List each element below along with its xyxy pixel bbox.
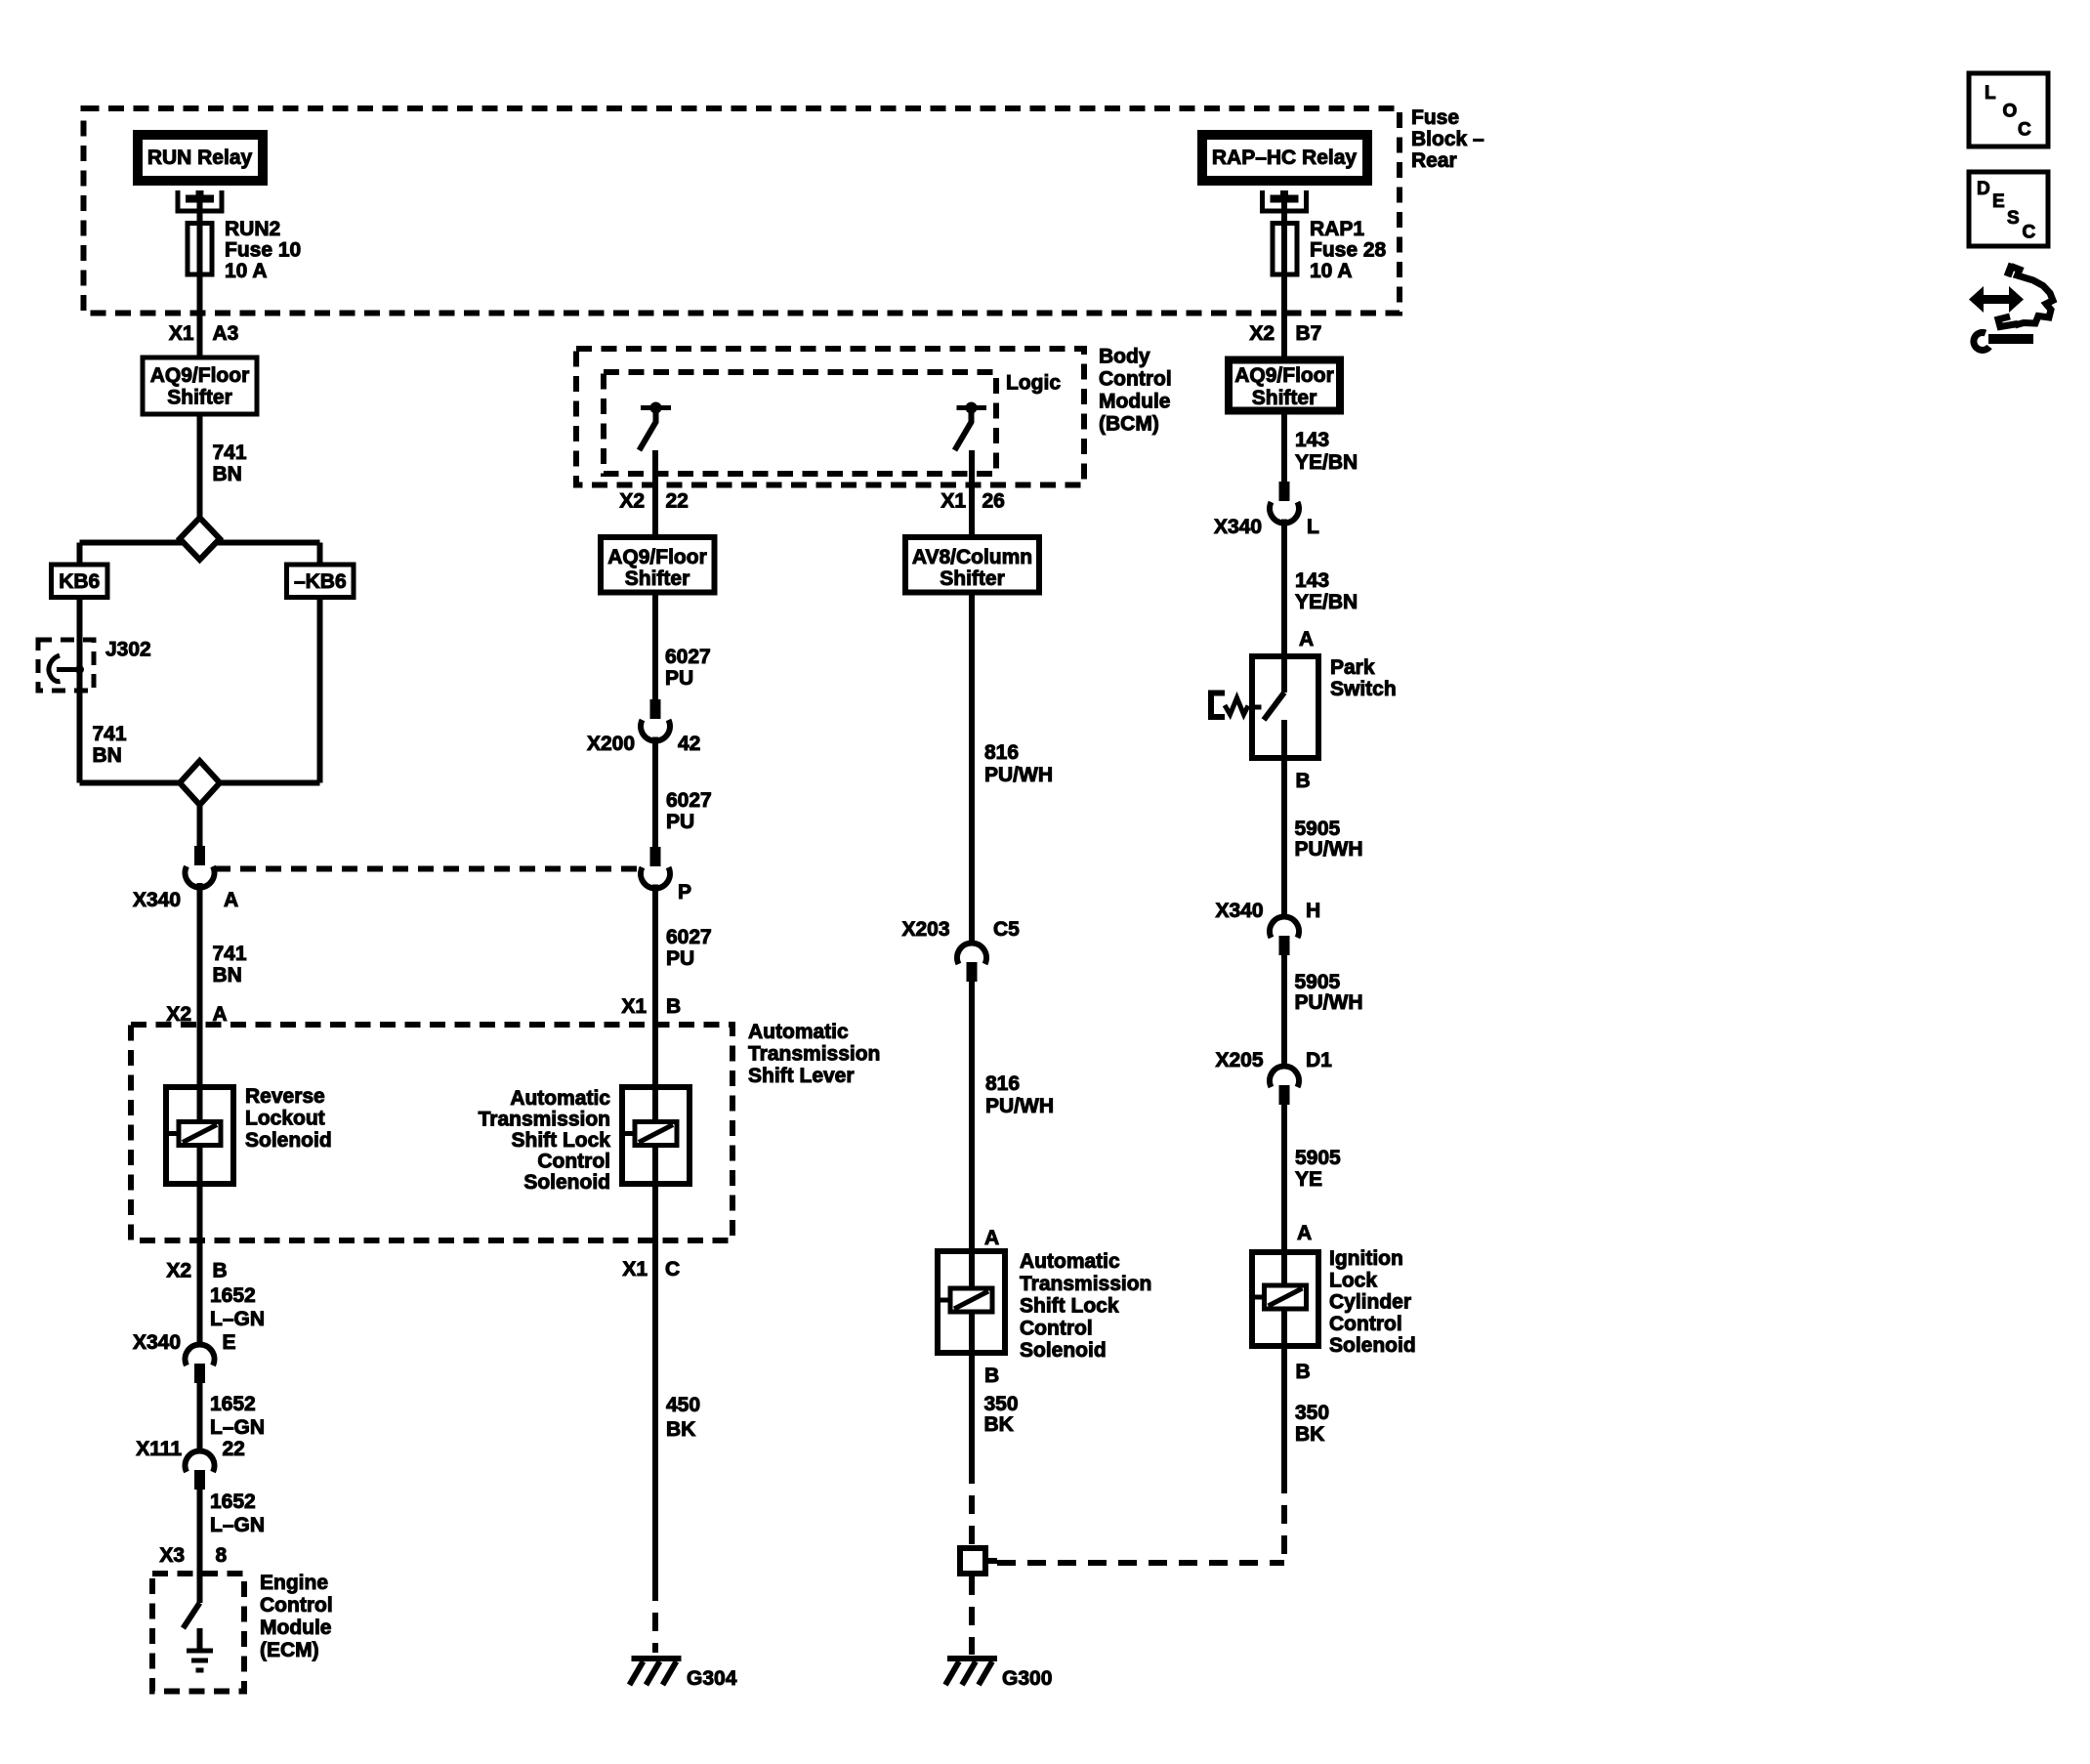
ECM internal switch blade <box>184 1603 200 1628</box>
svg-text:6027: 6027 <box>666 789 712 812</box>
wire park switch to X340-H <box>1281 761 1287 915</box>
svg-text:L: L <box>1985 83 1996 104</box>
svg-text:PU/WH: PU/WH <box>1295 838 1363 861</box>
svg-text:X205: X205 <box>1215 1049 1263 1071</box>
svg-text:816: 816 <box>984 741 1019 764</box>
wire solenoid to splice <box>969 1356 975 1465</box>
wire X205 to ignition solenoid <box>1281 1104 1287 1250</box>
wire right branch upper <box>317 543 323 563</box>
svg-text:Ignition: Ignition <box>1329 1247 1403 1270</box>
wire AQ9 to splice diamond <box>197 415 203 520</box>
svg-text:B7: B7 <box>1296 322 1322 345</box>
in-line connector X340 cavity L <box>1279 482 1290 501</box>
in-line connector X205 cavity D1 <box>1270 1066 1299 1087</box>
svg-text:Lock: Lock <box>1329 1269 1377 1291</box>
svg-text:5905: 5905 <box>1295 1147 1341 1169</box>
icon hotlink double arrow <box>1969 286 2024 313</box>
svg-text:RUN Relay: RUN Relay <box>147 147 253 169</box>
svg-text:X340: X340 <box>133 889 181 911</box>
svg-text:X203: X203 <box>901 918 949 941</box>
svg-text:X1: X1 <box>622 1258 648 1281</box>
svg-text:O: O <box>2003 102 2018 122</box>
svg-text:BN: BN <box>213 463 242 485</box>
svg-text:D: D <box>1977 179 1990 199</box>
svg-text:6027: 6027 <box>666 926 712 948</box>
wire RAP relay to AQ9 connector <box>1281 194 1287 357</box>
svg-text:A: A <box>224 889 238 911</box>
park switch actuator bracket <box>1211 693 1225 718</box>
wire X200 to P <box>652 737 658 848</box>
svg-text:Lockout: Lockout <box>245 1108 325 1130</box>
wire branch horizontal (top) <box>80 540 320 546</box>
fuse RAP1 Fuse 28 <box>1273 224 1297 275</box>
svg-text:RAP1: RAP1 <box>1310 218 1364 240</box>
wire AQ9 to X200 <box>652 596 658 700</box>
wire BCM X1-26 to AV8 box <box>969 450 975 534</box>
svg-text:450: 450 <box>666 1394 700 1416</box>
svg-text:Solenoid: Solenoid <box>1020 1339 1107 1362</box>
svg-text:1652: 1652 <box>210 1491 256 1513</box>
svg-text:B: B <box>213 1260 228 1282</box>
svg-text:22: 22 <box>223 1438 245 1460</box>
svg-text:PU: PU <box>665 667 693 690</box>
svg-text:H: H <box>1306 900 1320 922</box>
svg-text:Transmission: Transmission <box>748 1043 880 1066</box>
wire through A/T shift lock solenoid (col3) <box>969 1248 975 1356</box>
svg-text:741: 741 <box>93 723 127 745</box>
splice J302 dashed box <box>38 640 94 691</box>
BCM driver switch (right) <box>957 405 987 410</box>
svg-text:1652: 1652 <box>210 1393 256 1415</box>
solenoid L2 A/T Shift Lock Control Solenoid <box>622 1087 690 1184</box>
splice diamond (top) <box>180 518 220 560</box>
svg-text:B: B <box>1296 1361 1311 1383</box>
option box KB6 <box>52 565 108 598</box>
dashed wire to ground splice <box>969 1465 975 1545</box>
svg-text:Control: Control <box>260 1594 333 1617</box>
svg-text:E: E <box>223 1331 236 1354</box>
svg-text:Module: Module <box>1099 391 1171 413</box>
park switch upper contact wire <box>1281 653 1287 693</box>
wire X111 to ECM <box>197 1489 203 1603</box>
in-line connector cavity P <box>650 847 661 866</box>
connector box AQ9/Floor Shifter (right) <box>1229 360 1340 411</box>
svg-text:P: P <box>678 881 691 903</box>
svg-text:Fuse 10: Fuse 10 <box>225 239 301 262</box>
dashed wire ignition solenoid to splice <box>1281 1475 1287 1563</box>
dashed wire splice to G300 <box>969 1576 975 1655</box>
svg-text:350: 350 <box>984 1393 1019 1415</box>
wire diamond to connector X340-A <box>197 805 203 846</box>
svg-text:BK: BK <box>666 1418 695 1441</box>
park switch blade <box>1264 693 1284 720</box>
svg-text:X1: X1 <box>621 995 647 1018</box>
in-line connector X340 cavity H <box>1270 916 1299 938</box>
svg-text:YE/BN: YE/BN <box>1295 591 1358 613</box>
wire solenoid to G304 <box>652 1187 658 1582</box>
svg-text:L: L <box>1307 516 1319 538</box>
svg-text:AV8/Column: AV8/Column <box>912 546 1032 568</box>
svg-text:X111: X111 <box>136 1438 182 1460</box>
svg-text:22: 22 <box>666 490 689 513</box>
svg-text:Control: Control <box>1329 1313 1402 1335</box>
splice diamond (bottom) <box>180 761 220 805</box>
svg-text:C5: C5 <box>993 918 1020 941</box>
park switch linkage dash <box>1254 705 1262 710</box>
svg-text:X200: X200 <box>587 733 635 755</box>
svg-text:741: 741 <box>213 943 247 965</box>
engine control module dashed box <box>152 1574 244 1692</box>
svg-text:Block –: Block – <box>1411 128 1484 150</box>
svg-text:Engine: Engine <box>260 1572 328 1594</box>
svg-text:PU: PU <box>666 947 694 970</box>
svg-text:Switch: Switch <box>1330 678 1397 700</box>
svg-text:RAP–HC Relay: RAP–HC Relay <box>1212 147 1358 169</box>
wire X340A to reverse lockout solenoid <box>197 883 203 1084</box>
svg-text:143: 143 <box>1295 429 1329 451</box>
svg-text:BK: BK <box>1295 1423 1324 1446</box>
svg-text:Park: Park <box>1330 656 1375 679</box>
park switch box <box>1252 656 1318 758</box>
svg-text:C: C <box>2018 120 2031 141</box>
svg-text:26: 26 <box>982 490 1005 513</box>
wire X340L to park switch <box>1281 520 1287 654</box>
svg-text:741: 741 <box>213 441 247 464</box>
svg-text:42: 42 <box>678 733 700 755</box>
svg-text:Shifter: Shifter <box>167 387 232 409</box>
wire X340E to X111 <box>197 1383 203 1450</box>
svg-text:5905: 5905 <box>1295 818 1341 840</box>
svg-text:D1: D1 <box>1306 1049 1332 1071</box>
in-line connector X340 cavity A <box>194 846 205 865</box>
solenoid L3 A/T Shift Lock Control Solenoid <box>938 1251 1005 1353</box>
relay RAP-HC Relay box <box>1202 135 1367 181</box>
svg-text:Solenoid: Solenoid <box>523 1171 610 1194</box>
svg-text:C: C <box>2023 223 2036 243</box>
svg-text:Rear: Rear <box>1411 149 1457 172</box>
svg-text:E: E <box>1992 191 2005 212</box>
fuse block - rear dashed outline <box>84 108 1400 314</box>
svg-text:Automatic: Automatic <box>510 1087 610 1110</box>
svg-text:(ECM): (ECM) <box>260 1639 319 1661</box>
svg-text:L–GN: L–GN <box>210 1416 265 1439</box>
wire BCM X2-22 to AQ9 box <box>652 450 658 534</box>
wire AQ9 to X340-L <box>1281 415 1287 483</box>
body control module dashed box <box>576 349 1084 485</box>
RUN relay output terminal <box>178 190 222 211</box>
wire left branch lower <box>77 600 83 783</box>
dashed wire splice to ignition solenoid <box>997 1560 1284 1566</box>
svg-text:Shift Lock: Shift Lock <box>511 1129 610 1152</box>
svg-text:G304: G304 <box>687 1667 737 1690</box>
svg-text:BK: BK <box>984 1413 1014 1436</box>
svg-text:KB6: KB6 <box>59 570 100 593</box>
svg-text:10 A: 10 A <box>225 260 268 282</box>
ground G300 <box>947 1656 997 1661</box>
svg-text:L–GN: L–GN <box>210 1514 265 1536</box>
icon hotlink pointer outline <box>2008 264 2013 276</box>
svg-text:L–GN: L–GN <box>210 1308 265 1330</box>
wire X340H to X205 <box>1281 954 1287 1066</box>
svg-text:Shifter: Shifter <box>625 567 690 590</box>
svg-text:10 A: 10 A <box>1310 260 1353 282</box>
svg-text:X1: X1 <box>940 490 966 513</box>
ECM ground stem <box>197 1628 203 1649</box>
svg-text:X3: X3 <box>159 1544 185 1567</box>
svg-text:1652: 1652 <box>210 1284 256 1307</box>
RAP relay output terminal <box>1263 190 1307 211</box>
ECM earth ground symbol <box>187 1649 213 1654</box>
svg-text:B: B <box>666 995 681 1018</box>
svg-text:Control: Control <box>1099 368 1172 391</box>
connector box AV8/Column Shifter <box>905 537 1039 593</box>
svg-text:Body: Body <box>1099 346 1150 368</box>
wire through ignition lock solenoid <box>1281 1249 1287 1349</box>
option box -KB6 <box>287 565 355 598</box>
solenoid L4 Ignition Lock Cylinder Control Solenoid <box>1252 1252 1318 1346</box>
icon hotlink wrench <box>1974 332 1989 350</box>
solenoid L1 Reverse Lockout Solenoid <box>166 1087 233 1184</box>
svg-text:S: S <box>2007 208 2020 229</box>
splice J302 symbol <box>75 665 84 674</box>
svg-text:PU/WH: PU/WH <box>985 1095 1054 1117</box>
svg-text:Module: Module <box>260 1617 332 1639</box>
wire left branch upper <box>77 543 83 563</box>
svg-text:5905: 5905 <box>1295 971 1341 993</box>
svg-text:PU: PU <box>666 811 694 833</box>
svg-text:Shifter: Shifter <box>940 567 1005 590</box>
svg-text:Transmission: Transmission <box>1020 1273 1151 1295</box>
svg-text:A: A <box>1299 628 1314 651</box>
svg-text:Shift Lock: Shift Lock <box>1020 1295 1119 1318</box>
wire through reverse lockout solenoid <box>197 1084 203 1187</box>
svg-text:B: B <box>1296 770 1311 792</box>
wire AV8 to X203 <box>969 596 975 943</box>
svg-text:X340: X340 <box>1215 900 1263 922</box>
ground splice square <box>960 1548 985 1574</box>
wire through shift lock solenoid <box>652 1084 658 1187</box>
connector box AQ9/Floor Shifter (middle) <box>601 537 715 593</box>
svg-text:Control: Control <box>537 1151 610 1173</box>
svg-text:YE: YE <box>1295 1168 1322 1191</box>
in-line connector X200 cavity 42 <box>650 699 661 719</box>
wire P to shift lock solenoid <box>652 885 658 1085</box>
svg-text:X340: X340 <box>1214 516 1262 538</box>
svg-text:BN: BN <box>213 964 242 987</box>
svg-text:AQ9/Floor: AQ9/Floor <box>150 364 250 387</box>
park switch actuator zigzag <box>1225 698 1248 715</box>
dashed connector link X340A to P <box>215 866 640 872</box>
svg-text:G300: G300 <box>1002 1667 1052 1690</box>
icon LOC box <box>1969 73 2048 147</box>
svg-text:Reverse: Reverse <box>245 1085 325 1108</box>
logic dashed box <box>604 372 996 474</box>
svg-text:AQ9/Floor: AQ9/Floor <box>1234 364 1334 387</box>
svg-text:Fuse 28: Fuse 28 <box>1310 239 1387 262</box>
svg-text:X2: X2 <box>619 490 645 513</box>
wire ignition solenoid down <box>1281 1349 1287 1475</box>
svg-text:(BCM): (BCM) <box>1099 413 1159 436</box>
svg-text:Automatic: Automatic <box>748 1021 849 1043</box>
svg-text:RUN2: RUN2 <box>225 218 280 240</box>
svg-text:6027: 6027 <box>665 646 711 668</box>
svg-text:–KB6: –KB6 <box>294 570 347 593</box>
in-line connector X340 cavity E <box>185 1344 214 1365</box>
svg-text:A3: A3 <box>213 322 239 345</box>
svg-text:J302: J302 <box>105 639 151 661</box>
svg-text:Transmission: Transmission <box>479 1109 610 1131</box>
svg-text:Shift Lever: Shift Lever <box>748 1065 855 1087</box>
in-line connector X203 cavity C5 <box>957 943 986 964</box>
svg-text:8: 8 <box>216 1544 228 1567</box>
wire solenoid to X340-E <box>197 1187 203 1344</box>
wire RUN relay to AQ9 connector <box>197 194 203 357</box>
svg-text:A: A <box>1297 1222 1312 1244</box>
svg-text:PU/WH: PU/WH <box>1295 991 1363 1014</box>
ground G304 <box>632 1656 682 1661</box>
wire right branch lower <box>317 600 323 783</box>
park switch lower contact wire <box>1281 720 1287 761</box>
in-line connector X111 cavity 22 <box>185 1450 214 1472</box>
svg-text:816: 816 <box>985 1072 1020 1095</box>
svg-text:X1: X1 <box>169 322 194 345</box>
wire branch horizontal (bottom) <box>80 780 320 786</box>
svg-text:B: B <box>984 1365 999 1387</box>
fuse RUN2 Fuse 10 <box>188 224 212 275</box>
automatic transmission shift lever dashed box <box>131 1025 732 1240</box>
svg-text:Logic: Logic <box>1006 372 1061 395</box>
connector box AQ9/Floor Shifter (left) <box>143 357 257 414</box>
svg-text:BN: BN <box>93 744 122 767</box>
dashed wire to G304 <box>652 1582 658 1653</box>
svg-text:350: 350 <box>1295 1402 1329 1424</box>
svg-text:Shifter: Shifter <box>1252 387 1317 409</box>
svg-text:Automatic: Automatic <box>1020 1250 1120 1273</box>
svg-text:Control: Control <box>1020 1317 1093 1339</box>
svg-text:X340: X340 <box>133 1331 181 1354</box>
svg-text:X2: X2 <box>166 1260 191 1282</box>
svg-text:Solenoid: Solenoid <box>1329 1334 1416 1357</box>
svg-text:X2: X2 <box>1249 322 1275 345</box>
relay RUN Relay box <box>138 135 263 181</box>
svg-text:Cylinder: Cylinder <box>1329 1291 1411 1314</box>
wire X203 to solenoid <box>969 977 975 1249</box>
BCM driver switch (left) <box>641 405 671 410</box>
icon DESC box <box>1969 172 2048 246</box>
svg-text:143: 143 <box>1295 569 1329 592</box>
svg-text:A: A <box>984 1227 999 1249</box>
svg-text:Fuse: Fuse <box>1411 106 1459 129</box>
svg-text:YE/BN: YE/BN <box>1295 451 1358 474</box>
svg-text:AQ9/Floor: AQ9/Floor <box>607 546 707 568</box>
svg-text:Solenoid: Solenoid <box>245 1129 332 1152</box>
svg-text:C: C <box>665 1258 680 1281</box>
svg-text:PU/WH: PU/WH <box>984 764 1053 786</box>
